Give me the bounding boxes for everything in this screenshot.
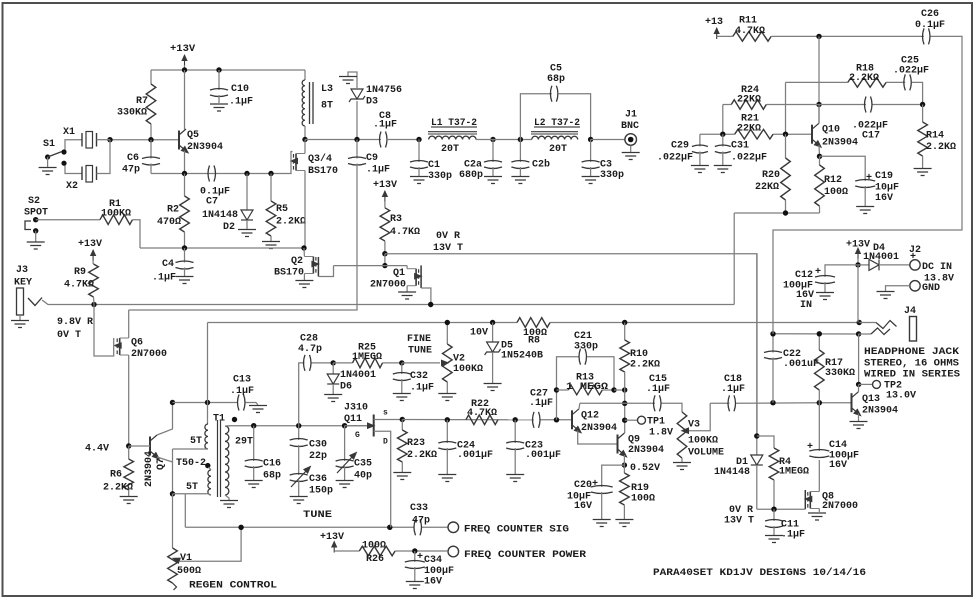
capacitor C29 xyxy=(657,134,708,165)
resistor R18 xyxy=(848,64,886,88)
svg-text:1N4001: 1N4001 xyxy=(863,252,899,263)
capacitor C5 branch xyxy=(520,64,590,140)
label REGEN CONTROL xyxy=(189,581,277,592)
mosfet Q6 2N7000 xyxy=(94,305,167,447)
resistor R9 xyxy=(64,264,98,305)
svg-text:2N7000: 2N7000 xyxy=(131,349,167,360)
wire mute bottom row xyxy=(757,508,805,510)
switch S2 SPOT xyxy=(24,196,48,242)
node R17 top xyxy=(817,331,822,336)
node C3 top xyxy=(588,137,593,142)
label TUNE xyxy=(303,510,332,521)
svg-text:2N3904: 2N3904 xyxy=(628,445,664,456)
svg-text:D: D xyxy=(383,438,388,447)
svg-text:DC IN: DC IN xyxy=(922,262,952,273)
svg-text:.022µF: .022µF xyxy=(731,153,767,164)
svg-text:TUNE: TUNE xyxy=(408,346,432,357)
resistor R14 xyxy=(918,105,956,169)
ground D5 xyxy=(484,384,502,391)
svg-text:C7: C7 xyxy=(206,197,218,208)
mosfet Q3/4 BS170 xyxy=(290,140,339,249)
inductor L1 xyxy=(428,118,477,155)
svg-text:STEREO, 16 OHMS: STEREO, 16 OHMS xyxy=(864,359,959,370)
ground R14 xyxy=(914,169,932,176)
svg-text:R10: R10 xyxy=(630,349,648,360)
svg-text:40p: 40p xyxy=(354,471,372,482)
wire L1-L2 row xyxy=(476,139,532,141)
wire main row L3-C8 xyxy=(305,139,381,141)
svg-text:16V: 16V xyxy=(829,460,847,471)
resistor R1 xyxy=(36,199,140,248)
svg-text:1 MEGΩ: 1 MEGΩ xyxy=(566,382,608,393)
+13V supply top left xyxy=(170,43,196,70)
svg-text:BS170: BS170 xyxy=(274,268,304,279)
wire 29T top tick xyxy=(225,421,235,426)
svg-text:FREQ COUNTER SIG: FREQ COUNTER SIG xyxy=(464,524,569,535)
svg-text:R2: R2 xyxy=(167,205,179,216)
node row D left xyxy=(720,132,725,137)
ground C20 xyxy=(593,520,611,527)
svg-text:R11: R11 xyxy=(739,16,757,27)
svg-text:4.7KΩ: 4.7KΩ xyxy=(390,227,420,238)
switch S1 xyxy=(43,139,67,167)
wire V1 wiper xyxy=(171,527,241,564)
svg-text:.022µF: .022µF xyxy=(893,66,929,77)
ground C32 xyxy=(393,394,411,401)
svg-text:C35: C35 xyxy=(354,459,372,470)
node C25-R14 node xyxy=(920,102,925,107)
node R23 top xyxy=(400,417,405,422)
node D4 anode xyxy=(855,262,860,267)
svg-text:BS170: BS170 xyxy=(308,166,338,177)
ground C2a xyxy=(484,177,502,184)
label FINE TUNE xyxy=(407,334,432,357)
wire Q10 collector leg xyxy=(818,36,820,123)
svg-text:Q10: Q10 xyxy=(822,125,840,136)
node phones-TP2 leg top xyxy=(856,331,861,336)
svg-text:FREQ COUNTER POWER: FREQ COUNTER POWER xyxy=(464,550,586,561)
svg-text:+13V: +13V xyxy=(320,532,344,543)
capacitor C28 xyxy=(298,334,333,371)
capacitor C14 xyxy=(807,403,859,471)
svg-text:C6: C6 xyxy=(127,153,139,164)
svg-text:680p: 680p xyxy=(459,170,483,181)
resistor R20 xyxy=(755,134,790,213)
resistor R19 xyxy=(620,465,655,519)
svg-text:20T: 20T xyxy=(441,144,459,155)
node D3 bottom xyxy=(354,137,359,142)
node C11 top xyxy=(771,507,776,512)
transistor Q12 xyxy=(572,403,617,436)
node Q5 base xyxy=(148,137,153,142)
svg-text:HEADPHONE JACK: HEADPHONE JACK xyxy=(864,347,959,358)
node C22 top xyxy=(770,331,775,336)
svg-text:1N5240B: 1N5240B xyxy=(501,351,543,362)
crystal X1 xyxy=(63,127,110,151)
wire 10V rail drop xyxy=(207,323,209,403)
ground C3 xyxy=(582,177,600,184)
node Q10 emitter xyxy=(817,154,822,159)
wire key row y304.5 xyxy=(53,304,734,306)
svg-text:47p: 47p xyxy=(122,165,140,176)
svg-text:C10: C10 xyxy=(231,84,249,95)
ground C31 xyxy=(714,166,732,173)
svg-text:1MEGΩ: 1MEGΩ xyxy=(779,467,809,478)
wire C28 drop xyxy=(299,363,305,426)
svg-text:GND: GND xyxy=(922,283,940,294)
node C34 top xyxy=(412,548,417,553)
+13 supply xyxy=(705,17,733,39)
connector J4 xyxy=(859,306,917,341)
svg-text:Q6: Q6 xyxy=(131,338,143,349)
svg-text:16V: 16V xyxy=(574,501,592,512)
node R10 top xyxy=(622,320,627,325)
svg-text:Q5: Q5 xyxy=(187,130,199,141)
capacitor C36 variable xyxy=(290,445,333,497)
svg-text:100Ω: 100Ω xyxy=(631,494,655,505)
svg-text:100Ω: 100Ω xyxy=(362,541,386,552)
svg-text:9.8V R: 9.8V R xyxy=(57,317,93,328)
svg-text:100KΩ: 100KΩ xyxy=(688,436,718,447)
wire Q12 collector row xyxy=(580,402,655,404)
svg-text:.001µF: .001µF xyxy=(457,450,493,461)
svg-text:20T: 20T xyxy=(549,144,567,155)
capacitor C13 xyxy=(230,375,267,413)
svg-text:FINE: FINE xyxy=(407,334,431,345)
wire row y253.7 to D1 xyxy=(385,254,757,436)
svg-text:47p: 47p xyxy=(412,516,430,527)
node V1 wiper tap xyxy=(238,525,243,530)
svg-text:100Ω: 100Ω xyxy=(824,187,848,198)
wire tune row xyxy=(229,425,367,427)
ground C35 xyxy=(336,481,354,488)
svg-text:R12: R12 xyxy=(824,175,842,186)
svg-text:C17: C17 xyxy=(862,131,880,142)
terminal FREQ SIG xyxy=(448,522,569,535)
+13V R3 supply xyxy=(373,180,397,208)
svg-text:T1: T1 xyxy=(213,414,225,425)
node C22 bottom node xyxy=(770,400,775,405)
ground C24 xyxy=(438,475,456,482)
transformer T1 core xyxy=(218,420,221,497)
ground J1 xyxy=(622,153,640,160)
ground J3 xyxy=(11,321,29,328)
svg-text:1N4148: 1N4148 xyxy=(202,210,238,221)
capacitor C6 xyxy=(122,140,160,176)
svg-text:22KΩ: 22KΩ xyxy=(737,124,761,135)
svg-text:330KΩ: 330KΩ xyxy=(825,368,855,379)
resistor R2 xyxy=(157,174,189,249)
transformer T1 label xyxy=(213,414,225,425)
capacitor C17 xyxy=(852,97,888,142)
svg-text:C32: C32 xyxy=(410,371,428,382)
svg-text:V2: V2 xyxy=(453,354,465,365)
node R5 top xyxy=(268,171,273,176)
svg-text:+13V: +13V xyxy=(170,43,196,55)
svg-text:10µF: 10µF xyxy=(875,183,899,194)
ground D2 xyxy=(238,230,256,237)
svg-text:.1µF: .1µF xyxy=(721,384,745,395)
svg-text:S1: S1 xyxy=(43,139,55,150)
svg-text:V1: V1 xyxy=(180,553,192,564)
svg-text:100KΩ: 100KΩ xyxy=(453,364,483,375)
+13V R9 supply xyxy=(78,239,102,264)
node Q7 base xyxy=(126,443,131,448)
diode D4 xyxy=(858,243,910,270)
capacitor C23 xyxy=(506,420,561,474)
svg-text:13V T: 13V T xyxy=(724,516,754,527)
testpoint TP1 xyxy=(625,416,673,438)
svg-text:0.52V: 0.52V xyxy=(630,463,660,474)
svg-text:2.2KΩ: 2.2KΩ xyxy=(276,217,306,228)
transistor Q5 xyxy=(179,70,223,174)
+13V R26 supply xyxy=(320,532,359,553)
ground R6 xyxy=(120,497,138,504)
svg-text:+: + xyxy=(417,552,423,563)
label 9.8V R 0V T xyxy=(57,317,93,341)
svg-text:.1µF: .1µF xyxy=(373,120,397,131)
label 4.4V xyxy=(85,444,109,455)
svg-text:2.2KΩ: 2.2KΩ xyxy=(630,360,660,371)
node C1 top xyxy=(416,137,421,142)
capacitor C18 xyxy=(710,374,819,411)
label 0.52V xyxy=(630,463,660,474)
svg-text:+: + xyxy=(592,479,598,490)
ground C29 xyxy=(691,166,709,173)
pot V1 500ohm xyxy=(168,494,201,590)
node Q9 emitter node xyxy=(622,462,627,467)
node rail-C10 xyxy=(216,67,221,72)
capacitor C8 xyxy=(373,111,419,148)
svg-text:C21: C21 xyxy=(574,331,592,342)
inductor L3 xyxy=(302,70,333,140)
capacitor C27 xyxy=(529,389,572,428)
ground R5 xyxy=(262,242,280,249)
svg-text:X2: X2 xyxy=(66,181,78,192)
svg-text:16V: 16V xyxy=(875,193,893,204)
mosfet Q8 2N7000 xyxy=(804,460,858,520)
resistor R10 xyxy=(620,323,660,391)
node Q11 drain bottom xyxy=(387,525,392,530)
label T50-2 xyxy=(176,458,206,469)
wire row B left leg xyxy=(785,82,787,134)
svg-text:.1µF: .1µF xyxy=(646,384,670,395)
node D5 top xyxy=(490,320,495,325)
svg-text:4.7KΩ: 4.7KΩ xyxy=(735,26,765,37)
svg-text:J3: J3 xyxy=(16,265,28,276)
node TP1 node xyxy=(622,418,627,423)
wire Q2gate-Q1 row xyxy=(334,265,408,267)
wire freq sig row xyxy=(185,526,413,528)
wire Q9 collector leg xyxy=(624,390,626,433)
svg-text:C16: C16 xyxy=(263,459,281,470)
svg-text:29T: 29T xyxy=(235,437,253,448)
transistor Q7 xyxy=(129,403,173,494)
capacitor C35 variable xyxy=(336,426,372,482)
wire xtal row xyxy=(110,139,179,141)
node T1 top xyxy=(205,400,210,405)
svg-text:T50-2: T50-2 xyxy=(176,458,206,469)
wire V2 wiper xyxy=(402,360,450,367)
ground C36 xyxy=(290,497,308,504)
diode D1 mute xyxy=(714,254,763,510)
wire tickler bottom xyxy=(173,494,212,495)
svg-text:13V T: 13V T xyxy=(433,243,463,254)
ground S1 xyxy=(39,168,57,175)
node 29T phase dot xyxy=(232,417,237,422)
svg-text:S2: S2 xyxy=(28,196,40,207)
wire R13-R10 link xyxy=(614,389,625,391)
capacitor C25 xyxy=(893,56,929,105)
svg-text:C3: C3 xyxy=(600,160,612,171)
wire row y402.5 xyxy=(173,402,238,404)
capacitor C33 xyxy=(410,503,448,535)
transformer T1 secondary 29T xyxy=(225,426,253,495)
wire 10V rail xyxy=(208,322,860,324)
label 0V R 13V T mute xyxy=(724,505,754,527)
svg-text:C26: C26 xyxy=(921,9,939,20)
svg-text:R19: R19 xyxy=(631,483,649,494)
wire key row corner up xyxy=(733,213,735,305)
svg-text:C28: C28 xyxy=(300,334,318,345)
svg-text:Q3/4: Q3/4 xyxy=(308,153,332,165)
svg-text:.022µF: .022µF xyxy=(657,153,693,164)
svg-text:22KΩ: 22KΩ xyxy=(737,95,761,106)
node gate row xyxy=(382,263,387,268)
node C24 top xyxy=(445,417,450,422)
node R3 bottom xyxy=(382,251,387,256)
svg-text:IN: IN xyxy=(800,300,812,311)
wire Q12 emitter to Q9 base xyxy=(578,431,618,445)
+13V D4 supply xyxy=(846,240,870,265)
svg-text:KEY: KEY xyxy=(14,278,32,289)
node D6 top xyxy=(331,360,336,365)
wire D4 node drop xyxy=(857,265,859,323)
svg-text:0V R: 0V R xyxy=(729,505,753,516)
wire R11-C26 xyxy=(771,35,924,37)
svg-text:J310: J310 xyxy=(344,403,368,414)
svg-text:V3: V3 xyxy=(688,420,700,431)
node C23 top xyxy=(513,417,518,422)
mosfet Q1 2N7000 xyxy=(370,265,431,304)
wire Q6 drain row to C9 xyxy=(0,0,1,1)
svg-text:330p: 330p xyxy=(574,342,598,353)
svg-text:100KΩ: 100KΩ xyxy=(101,209,131,220)
svg-text:.1µF: .1µF xyxy=(230,386,254,397)
svg-text:1MEGΩ: 1MEGΩ xyxy=(352,352,382,363)
resistor R25 xyxy=(333,343,402,368)
svg-text:C19: C19 xyxy=(875,171,893,182)
testpoint TP2 xyxy=(859,380,916,401)
svg-text:SPOT: SPOT xyxy=(24,208,48,219)
svg-text:C31: C31 xyxy=(731,141,749,152)
svg-text:L3: L3 xyxy=(321,84,333,95)
svg-text:C12: C12 xyxy=(795,270,813,281)
svg-text:C2a: C2a xyxy=(464,160,482,171)
svg-text:R14: R14 xyxy=(926,131,944,142)
node jack top contact xyxy=(857,320,862,325)
wire R26-FREQ xyxy=(395,550,447,552)
diode D2 xyxy=(202,174,253,234)
svg-text:4.7p: 4.7p xyxy=(298,344,322,355)
svg-text:R5: R5 xyxy=(276,204,288,215)
svg-text:5T: 5T xyxy=(190,436,202,447)
svg-text:470Ω: 470Ω xyxy=(157,217,181,228)
svg-text:+: + xyxy=(807,442,813,453)
connector J2 DC IN xyxy=(909,245,954,285)
svg-text:Q9: Q9 xyxy=(628,435,640,446)
svg-text:Q1: Q1 xyxy=(393,268,405,279)
capacitor C11 xyxy=(765,509,805,540)
svg-text:.001uF: .001uF xyxy=(783,359,819,370)
wire tickler top tick xyxy=(209,467,212,470)
capacitor C9 xyxy=(348,140,390,176)
node R13 left xyxy=(554,387,559,392)
svg-text:1N4148: 1N4148 xyxy=(714,467,750,478)
svg-text:0V T: 0V T xyxy=(57,330,81,341)
transformer T1 tickler 5T lower xyxy=(186,470,211,495)
svg-text:2N3904: 2N3904 xyxy=(144,451,155,487)
svg-text:8T: 8T xyxy=(321,101,333,112)
node R10 bottom xyxy=(622,387,627,392)
svg-text:68p: 68p xyxy=(547,74,565,85)
svg-text:.1µF: .1µF xyxy=(781,530,805,541)
svg-text:22KΩ: 22KΩ xyxy=(755,182,779,193)
connector J1 BNC xyxy=(591,110,639,153)
wire emitter row y173.5 xyxy=(151,173,290,175)
svg-text:Q13: Q13 xyxy=(862,394,880,405)
svg-text:VOLUME: VOLUME xyxy=(688,448,724,459)
svg-text:100µF: 100µF xyxy=(424,566,454,577)
svg-text:+13: +13 xyxy=(705,17,723,28)
svg-text:2.2KΩ: 2.2KΩ xyxy=(926,142,956,153)
svg-text:C29: C29 xyxy=(671,141,689,152)
ground C11 xyxy=(765,536,783,543)
wire C21-R13 left leg xyxy=(557,357,580,420)
ground V3 xyxy=(673,463,691,470)
svg-text:1N4001: 1N4001 xyxy=(340,370,376,381)
capacitor C34 xyxy=(405,551,454,588)
wire Q9 emitter leg xyxy=(623,455,625,465)
svg-text:.001µF: .001µF xyxy=(525,450,561,461)
svg-text:R23: R23 xyxy=(407,438,425,449)
resistor R21 xyxy=(735,114,773,140)
svg-text:2N3904: 2N3904 xyxy=(822,138,858,149)
node Q12 base xyxy=(554,417,559,422)
resistor R22 xyxy=(466,399,498,425)
node R20 top xyxy=(783,132,788,137)
node TP2 node xyxy=(856,382,861,387)
node row402 left xyxy=(170,400,175,405)
svg-text:s: s xyxy=(383,409,388,418)
node xtal-junction xyxy=(107,137,112,142)
node C2a top xyxy=(490,137,495,142)
ground R19 xyxy=(615,520,633,527)
inductor L2 xyxy=(531,118,580,155)
node R9 bottom xyxy=(91,302,96,307)
resistor R11 xyxy=(733,16,771,42)
wire row C xyxy=(723,104,923,106)
capacitor C7 xyxy=(200,166,230,208)
svg-text:C1: C1 xyxy=(428,160,440,171)
svg-text:+: + xyxy=(815,267,821,278)
label title xyxy=(653,567,866,579)
resistor R26 xyxy=(359,541,395,566)
svg-text:C30: C30 xyxy=(309,440,327,451)
wire Q7emitter-T1 bottoms xyxy=(173,448,209,450)
svg-text:C9: C9 xyxy=(366,153,378,164)
transistor Q13 xyxy=(850,384,899,428)
